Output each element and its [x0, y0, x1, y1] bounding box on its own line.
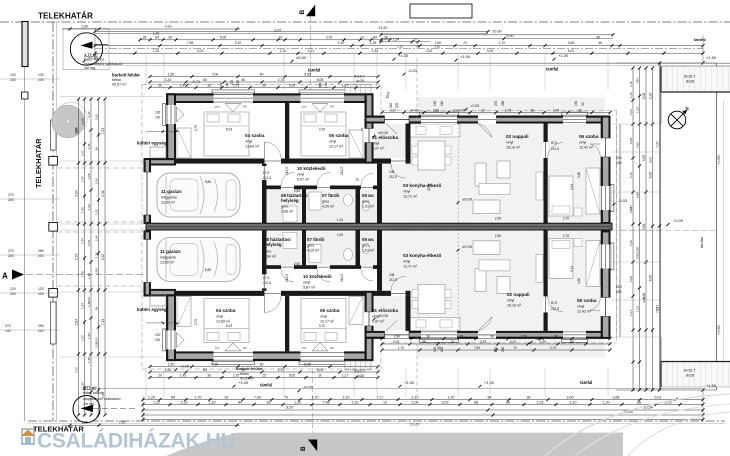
- watermark gray band bottom right: [166, 433, 623, 456]
- svg-text:280: 280: [501, 346, 505, 352]
- svg-text:36: 36: [527, 395, 531, 399]
- furniture tv cabinet top: [536, 172, 543, 200]
- svg-text:13,71 m²: 13,71 m²: [403, 264, 418, 268]
- svg-text:+1,00: +1,00: [404, 380, 415, 385]
- svg-text:1,10: 1,10: [629, 81, 633, 87]
- top row 1,50-7,00 left: [62, 28, 240, 30]
- svg-text:110: 110: [389, 103, 393, 108]
- svg-text:1m vtg: 1m vtg: [84, 66, 95, 70]
- left boundary lower bar: [50, 302, 56, 344]
- door 08 top: [281, 185, 294, 190]
- svg-text:215: 215: [230, 79, 234, 85]
- svg-text:2,70: 2,70: [505, 108, 511, 112]
- section line A-A dashed: [26, 274, 146, 276]
- svg-text:250: 250: [38, 324, 44, 328]
- svg-text:6x16,7: 6x16,7: [684, 75, 695, 79]
- svg-text:36: 36: [241, 78, 245, 82]
- top dash-dot property offset row: [95, 48, 703, 50]
- svg-text:36: 36: [554, 334, 558, 338]
- svg-text:87,5: 87,5: [551, 141, 557, 145]
- top dimension row 6,90: [381, 38, 613, 40]
- left small dim lines: [0, 78, 60, 80]
- svg-text:120: 120: [10, 287, 16, 291]
- svg-text:2,33: 2,33: [181, 400, 188, 404]
- bottom row 1,50-7,00: [62, 424, 240, 426]
- svg-text:01 előszoba: 01 előszoba: [372, 135, 398, 140]
- svg-text:212,5: 212,5: [340, 274, 344, 282]
- left dimension column group: [78, 99, 80, 415]
- svg-text:18,16 m²: 18,16 m²: [507, 303, 522, 307]
- svg-text:7,00: 7,00: [165, 24, 172, 28]
- svg-text:02 nappali: 02 nappali: [507, 292, 529, 297]
- top dimension row 8,57: [95, 33, 488, 35]
- svg-text:15%: 15%: [427, 183, 431, 191]
- svg-text:10,17 m²: 10,17 m²: [320, 319, 335, 323]
- svg-text:84: 84: [488, 395, 492, 399]
- svg-text:2,08: 2,08: [629, 138, 633, 144]
- bottom row 21,67: [143, 419, 703, 421]
- svg-text:+1,00: +1,00: [484, 380, 495, 385]
- svg-text:+1,50: +1,50: [717, 155, 721, 165]
- svg-text:270: 270: [5, 324, 11, 328]
- window 06 szoba top top: [563, 115, 586, 124]
- central party wall band: [146, 223, 612, 230]
- svg-text:2,10: 2,10: [338, 41, 345, 45]
- door 07 top: [317, 185, 330, 190]
- svg-text:1,20: 1,20: [148, 395, 155, 399]
- partition 09-konyha top: [377, 164, 382, 224]
- section marker B bottom: [308, 440, 317, 452]
- svg-text:gres.: gres.: [264, 249, 272, 253]
- svg-text:±0,50: ±0,50: [296, 55, 307, 60]
- svg-text:vinyl: vinyl: [506, 141, 513, 145]
- svg-text:13,89 m²: 13,89 m²: [245, 144, 260, 148]
- svg-text:4,25 m²: 4,25 m²: [322, 204, 335, 208]
- svg-text:200: 200: [10, 292, 16, 296]
- top horizontal line to +1,50: [616, 62, 717, 64]
- svg-text:4,60: 4,60: [635, 142, 639, 148]
- svg-text:90: 90: [330, 105, 334, 109]
- svg-text:1,36: 1,36: [87, 273, 91, 279]
- section line B-B dashed: [310, 16, 312, 90]
- svg-text:1,20: 1,20: [337, 218, 343, 222]
- tamfal bottom line: [95, 387, 703, 389]
- svg-text:gres.: gres.: [322, 200, 330, 204]
- svg-text:1,17: 1,17: [342, 373, 348, 377]
- interior wall bedrooms bottom top: [176, 159, 366, 164]
- svg-text:212,5: 212,5: [551, 307, 559, 311]
- furniture car in garage top: [157, 173, 240, 217]
- svg-text:90: 90: [243, 105, 247, 109]
- svg-text:87,5: 87,5: [263, 171, 269, 175]
- partition 08-07 top: [302, 189, 306, 224]
- hall bottom wall bottom: [266, 265, 377, 269]
- infiltration circle (szikkaszto) top: [70, 33, 102, 65]
- svg-text:kültéri egység: kültéri egység: [137, 141, 167, 146]
- exterior wall left bedrooms bottom: [166, 291, 176, 361]
- svg-text:07 fürdő: 07 fürdő: [322, 193, 340, 198]
- svg-text:2,64: 2,64: [80, 118, 84, 124]
- svg-text:84: 84: [238, 400, 242, 404]
- bathroom fixtures bottom: [309, 244, 321, 262]
- svg-text:támfal: támfal: [546, 67, 558, 72]
- entrance door gap bottom: [385, 331, 410, 340]
- svg-text:1,44: 1,44: [80, 176, 84, 182]
- svg-text:támfal: támfal: [694, 37, 706, 42]
- svg-text:2,10: 2,10: [648, 93, 652, 100]
- top dimension row window dims left: [140, 39, 390, 41]
- svg-text:10: 10: [481, 108, 485, 112]
- svg-text:gres.: gres.: [307, 244, 315, 248]
- svg-text:7,37: 7,37: [655, 141, 659, 148]
- svg-text:1,63 m²: 1,63 m²: [362, 248, 375, 252]
- svg-text:5,80: 5,80: [205, 268, 212, 272]
- window 05 szoba top: [301, 93, 345, 104]
- svg-text:3,66: 3,66: [568, 41, 575, 45]
- entry wall W5 top: [365, 93, 374, 163]
- door gap hall-04 bottom: [265, 290, 282, 296]
- svg-text:1,50: 1,50: [168, 72, 175, 76]
- svg-text:3,70: 3,70: [319, 324, 326, 328]
- partition nappali-06szoba bottom: [544, 230, 548, 331]
- svg-text:74: 74: [635, 78, 639, 82]
- svg-text:212,5: 212,5: [285, 167, 289, 175]
- svg-text:1,20: 1,20: [448, 395, 455, 399]
- svg-text:burkolt felület: burkolt felület: [112, 73, 140, 78]
- svg-text:1,36: 1,36: [80, 271, 84, 277]
- door eloszoba-konyha top: [391, 158, 406, 164]
- svg-text:90: 90: [260, 72, 264, 76]
- svg-text:200: 200: [616, 161, 622, 165]
- window 05 szoba bottom: [301, 351, 345, 362]
- svg-text:4,21: 4,21: [308, 49, 315, 53]
- svg-text:100: 100: [155, 111, 161, 115]
- bottom row 10,90: [143, 414, 703, 416]
- svg-text:5,87 m²: 5,87 m²: [303, 285, 316, 289]
- svg-text:2,70: 2,70: [553, 108, 559, 112]
- furniture dining table top: [418, 141, 445, 170]
- szikkaszto dashed box: [63, 29, 109, 70]
- svg-text:1,08: 1,08: [87, 240, 91, 246]
- svg-text:36: 36: [490, 334, 494, 338]
- svg-text:1,36: 1,36: [80, 207, 84, 213]
- svg-text:12,42 m²: 12,42 m²: [577, 309, 592, 313]
- svg-text:1,00: 1,00: [80, 335, 84, 341]
- exterior wall top right-section top: [365, 116, 611, 124]
- svg-text:1,00: 1,00: [94, 114, 98, 120]
- terrace outer vertical line: [660, 63, 662, 390]
- svg-text:3,95: 3,95: [642, 224, 646, 231]
- svg-text:±0,00: ±0,00: [378, 313, 389, 318]
- svg-text:7,23: 7,23: [101, 319, 105, 326]
- window 04 szoba bottom: [214, 351, 254, 362]
- svg-text:36: 36: [267, 400, 271, 404]
- svg-text:195: 195: [324, 83, 328, 88]
- svg-text:3,51: 3,51: [570, 266, 574, 272]
- terrace edge line right: [619, 124, 621, 337]
- svg-text:36: 36: [578, 108, 582, 112]
- svg-text:200: 200: [38, 78, 44, 82]
- right dimension column group: [632, 68, 634, 390]
- svg-text:7,98: 7,98: [187, 41, 194, 45]
- svg-text:CSALÁDIHÁZAK.HU: CSALÁDIHÁZAK.HU: [37, 430, 236, 453]
- compass north symbol: [668, 111, 686, 129]
- svg-text:7,00: 7,00: [119, 421, 126, 425]
- svg-text:-0,03: -0,03: [470, 103, 480, 108]
- right witness lines: [612, 123, 660, 125]
- furniture kitchen counter bottom: [410, 317, 460, 330]
- svg-text:B: B: [299, 10, 306, 15]
- door nappali-06 bottom: [543, 296, 548, 312]
- svg-text:13,89 m²: 13,89 m²: [216, 319, 231, 323]
- furniture dining table bottom: [418, 284, 445, 313]
- svg-text:2,10: 2,10: [343, 395, 350, 399]
- svg-text:7,00: 7,00: [212, 362, 219, 366]
- svg-text:2,70: 2,70: [521, 334, 527, 338]
- svg-text:1,20: 1,20: [153, 400, 160, 404]
- svg-text:84: 84: [155, 35, 159, 39]
- svg-text:36: 36: [168, 35, 172, 39]
- svg-text:05 szoba: 05 szoba: [329, 133, 349, 138]
- entry porch steps top: [345, 85, 371, 94]
- terrace door nappali bottom: [478, 331, 496, 340]
- svg-text:2,75: 2,75: [194, 125, 198, 131]
- door gap hall-04 top: [265, 158, 282, 164]
- svg-text:1,63 m²: 1,63 m²: [362, 204, 375, 208]
- svg-text:212,5: 212,5: [263, 176, 271, 180]
- garage top wall bottom: [144, 289, 177, 297]
- svg-text:06 szoba: 06 szoba: [579, 134, 599, 139]
- svg-text:2,08: 2,08: [642, 93, 646, 100]
- svg-text:11 garázs: 11 garázs: [160, 249, 181, 254]
- upper rows above left section: [150, 76, 378, 78]
- exterior wall top right-section bottom: [365, 331, 611, 339]
- floor hatch eloszoba bottom: [374, 296, 406, 331]
- svg-text:1,10: 1,10: [397, 44, 403, 48]
- svg-text:195: 195: [236, 79, 240, 85]
- exterior wall right top: [601, 116, 611, 225]
- svg-text:vinyl: vinyl: [216, 315, 223, 319]
- svg-text:03 konyha-étkező: 03 konyha-étkező: [403, 183, 441, 188]
- svg-text:2,70: 2,70: [312, 395, 319, 399]
- svg-text:270: 270: [8, 249, 14, 253]
- svg-text:3,66: 3,66: [613, 395, 620, 399]
- svg-text:20: 20: [158, 373, 162, 377]
- svg-text:1,70: 1,70: [398, 346, 404, 350]
- svg-text:98: 98: [474, 400, 478, 404]
- svg-text:36: 36: [598, 41, 602, 45]
- window 06 szoba top bottom: [563, 331, 586, 340]
- title block rectangle top: [410, 4, 472, 18]
- garage top wall top: [144, 158, 177, 166]
- svg-text:2,70: 2,70: [457, 334, 463, 338]
- svg-text:5,01: 5,01: [568, 49, 575, 53]
- svg-text:pm: pm: [215, 346, 220, 350]
- svg-text:21,67: 21,67: [378, 26, 387, 30]
- svg-text:212,5: 212,5: [340, 167, 344, 175]
- svg-text:195: 195: [225, 83, 229, 88]
- svg-text:5,05: 5,05: [289, 373, 295, 377]
- property line bottom: [28, 420, 725, 422]
- svg-text:190: 190: [433, 100, 437, 106]
- svg-text:1,01: 1,01: [629, 310, 633, 316]
- svg-text:1,00: 1,00: [337, 233, 343, 237]
- svg-text:2,50: 2,50: [294, 189, 300, 193]
- svg-text:2,10: 2,10: [352, 400, 359, 404]
- floor hatch konyha-nappali top: [382, 124, 544, 224]
- svg-text:6,05: 6,05: [648, 172, 652, 179]
- furniture bed 04 szoba bottom: [204, 298, 249, 342]
- svg-text:1,28: 1,28: [370, 41, 377, 45]
- partition 08-07 bottom: [302, 230, 306, 265]
- svg-text:1,36: 1,36: [87, 357, 91, 363]
- svg-text:8,57: 8,57: [275, 29, 282, 33]
- partition eloszoba-konyha vertical bottom: [406, 296, 411, 331]
- svg-text:1,44: 1,44: [80, 238, 84, 244]
- svg-text:36: 36: [530, 108, 534, 112]
- partition nappali-06szoba top: [544, 124, 548, 225]
- top dimension row 10,90: [381, 34, 613, 36]
- svg-text:2,66 m²: 2,66 m²: [281, 209, 294, 213]
- svg-text:09 wc: 09 wc: [362, 193, 375, 198]
- svg-text:190: 190: [574, 100, 578, 106]
- svg-text:2,70: 2,70: [563, 234, 570, 238]
- top dimension row mixed 44: [95, 45, 703, 47]
- svg-text:8,57: 8,57: [286, 405, 293, 409]
- svg-text:190: 190: [155, 116, 161, 120]
- svg-text:2,00: 2,00: [412, 400, 419, 404]
- infiltration circle bottom: [73, 396, 100, 423]
- svg-text:2,10: 2,10: [510, 340, 516, 344]
- property line left (dash-dot): [52, 22, 54, 421]
- svg-text:10: 10: [383, 400, 387, 404]
- svg-text:2,10: 2,10: [629, 240, 633, 246]
- svg-text:120: 120: [38, 73, 44, 77]
- garage right wall bottom: [262, 230, 267, 290]
- svg-text:3,70: 3,70: [326, 35, 333, 39]
- svg-text:1,94: 1,94: [101, 392, 105, 398]
- svg-text:190: 190: [433, 346, 437, 352]
- svg-text:gres.: gres.: [362, 200, 370, 204]
- svg-text:2,70: 2,70: [563, 217, 570, 221]
- svg-text:6,90: 6,90: [507, 34, 514, 38]
- right terrace dashes: [620, 230, 716, 232]
- svg-text:1,20: 1,20: [153, 49, 160, 53]
- svg-text:+1,00: +1,00: [558, 53, 569, 58]
- svg-text:06 szoba: 06 szoba: [577, 298, 597, 303]
- svg-text:13,50 m²: 13,50 m²: [160, 260, 175, 264]
- tree circle: [52, 105, 84, 137]
- door 09 bottom: [361, 265, 373, 270]
- svg-text:pm: pm: [302, 346, 307, 350]
- floor hatch 06 szoba bottom: [548, 231, 602, 331]
- svg-text:2,33: 2,33: [537, 400, 544, 404]
- window 06 szoba right wall top: [600, 186, 611, 210]
- entry porch steps bottom: [345, 361, 371, 370]
- svg-text:1,20: 1,20: [165, 368, 172, 372]
- svg-text:5,03: 5,03: [226, 128, 233, 132]
- window opening marks bedrooms bottom: [225, 343, 241, 351]
- svg-text:205: 205: [395, 102, 399, 108]
- svg-text:1,70: 1,70: [195, 395, 202, 399]
- svg-text:200: 200: [8, 254, 14, 258]
- svg-text:02 nappali: 02 nappali: [506, 134, 528, 139]
- svg-text:1,44: 1,44: [87, 297, 91, 303]
- svg-text:10 közlekedő: 10 közlekedő: [303, 274, 332, 279]
- svg-text:+1,00: +1,00: [460, 54, 471, 59]
- svg-text:87,5: 87,5: [551, 301, 557, 305]
- svg-text:36: 36: [241, 368, 245, 372]
- svg-text:280: 280: [501, 100, 505, 106]
- svg-text:+1,50: +1,50: [706, 383, 717, 388]
- svg-text:vinyl: vinyl: [577, 305, 584, 309]
- svg-text:TELEKHATÁR: TELEKHATÁR: [34, 138, 43, 188]
- svg-text:6,05: 6,05: [648, 275, 652, 282]
- svg-text:110: 110: [440, 347, 444, 352]
- svg-text:6,88: 6,88: [635, 192, 639, 198]
- terrace window right-section bottom: [421, 331, 457, 340]
- svg-text:5,05: 5,05: [317, 368, 324, 372]
- svg-text:1,23: 1,23: [635, 306, 639, 312]
- svg-text:1,10: 1,10: [629, 92, 633, 98]
- svg-text:2,70: 2,70: [499, 41, 506, 45]
- svg-text:84: 84: [203, 368, 207, 372]
- svg-text:8x28: 8x28: [686, 373, 694, 377]
- svg-text:1,20: 1,20: [603, 400, 610, 404]
- property line left outer: [24, 22, 26, 421]
- svg-text:13,50 m²: 13,50 m²: [161, 200, 176, 204]
- svg-text:1,20: 1,20: [294, 400, 301, 404]
- partition 09-konyha bottom: [377, 230, 382, 290]
- svg-text:05 szoba: 05 szoba: [320, 308, 340, 313]
- svg-text:3,00: 3,00: [567, 395, 574, 399]
- svg-text:21,67: 21,67: [410, 422, 420, 426]
- exterior wall left bedrooms top: [166, 93, 176, 163]
- svg-text:09 wc: 09 wc: [362, 237, 375, 242]
- svg-text:108: 108: [389, 273, 395, 277]
- svg-text:2,17: 2,17: [377, 395, 384, 399]
- svg-text:36: 36: [596, 35, 600, 39]
- garage door bottom: [143, 239, 151, 282]
- svg-text:200: 200: [616, 290, 622, 294]
- svg-text:2,90: 2,90: [495, 234, 502, 238]
- left boundary small square: [22, 92, 29, 99]
- svg-text:75: 75: [355, 178, 359, 182]
- left witness lines: [60, 96, 164, 98]
- svg-text:2,02: 2,02: [101, 254, 105, 261]
- exterior wall right bottom: [601, 230, 611, 339]
- svg-text:2,50: 2,50: [294, 262, 300, 266]
- furniture wardrobe 05 top: [349, 130, 363, 158]
- svg-text:5,05: 5,05: [289, 83, 295, 87]
- svg-text:120: 120: [10, 73, 16, 77]
- svg-text:43,57 m²: 43,57 m²: [112, 82, 127, 86]
- svg-text:pm: pm: [302, 105, 307, 109]
- svg-text:kültéri egység: kültéri egység: [137, 307, 167, 312]
- svg-text:10: 10: [426, 334, 430, 338]
- svg-text:1,94: 1,94: [94, 235, 98, 241]
- svg-text:10,90: 10,90: [492, 30, 501, 34]
- svg-text:5,05: 5,05: [304, 72, 311, 76]
- door eloszoba-konyha bottom: [391, 290, 406, 296]
- furniture wardrobe 06 top: [586, 168, 600, 214]
- svg-text:1,50: 1,50: [81, 421, 88, 425]
- svg-text:5,05: 5,05: [220, 35, 227, 39]
- svg-text:36: 36: [94, 147, 98, 151]
- furniture wardrobe 05 bottom: [349, 296, 363, 324]
- svg-text:2,80: 2,80: [433, 108, 439, 112]
- exterior wall top bedrooms bottom: [166, 351, 371, 361]
